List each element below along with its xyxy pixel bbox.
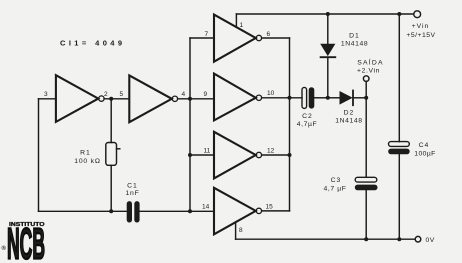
node: R1 bottom junction xyxy=(109,209,113,213)
inverter bubble A xyxy=(99,96,104,101)
svg-text:C2: C2 xyxy=(302,113,313,120)
node: bus junction pin 14 row xyxy=(188,209,192,213)
wire: top VDD rail xyxy=(236,13,413,15)
terminal: SAIDA output circle xyxy=(363,76,369,82)
svg-text:+2.Vin: +2.Vin xyxy=(357,67,380,74)
svg-text:12: 12 xyxy=(267,148,275,155)
svg-text:7: 7 xyxy=(205,31,209,38)
wire: pin 1 riser to VDD rail xyxy=(235,14,237,27)
svg-text:0V: 0V xyxy=(426,237,435,244)
wire: D2 cathode to output node xyxy=(353,97,366,99)
wire: C4 bottom lead xyxy=(398,154,400,239)
svg-text:4: 4 xyxy=(182,91,186,98)
op-amp U1B inverter pins 5/4 xyxy=(129,75,172,122)
svg-text:C3: C3 xyxy=(331,177,342,184)
svg-text:4,7 µF: 4,7 µF xyxy=(323,186,346,193)
svg-text:+5/+15V: +5/+15V xyxy=(406,32,435,39)
svg-text:9: 9 xyxy=(204,91,208,98)
svg-text:10: 10 xyxy=(267,90,275,97)
wire: C3 bottom lead xyxy=(365,190,367,239)
wire: C4 top lead from VDD rail xyxy=(398,14,400,142)
svg-text:NCB: NCB xyxy=(7,219,45,263)
svg-text:6: 6 xyxy=(267,31,271,38)
svg-text:11: 11 xyxy=(204,148,211,155)
op-amp U1A inverter pins 3/2 xyxy=(56,75,98,122)
svg-text:3: 3 xyxy=(44,91,48,98)
svg-text:1N4148: 1N4148 xyxy=(335,118,362,125)
capacitor C2 positive plate (solid) xyxy=(309,87,315,108)
inverter bubble D xyxy=(256,95,261,100)
node: D1 top rail junction xyxy=(326,12,330,16)
wire: C3 top lead xyxy=(365,98,367,178)
wire: SAIDA terminal riser xyxy=(365,81,367,97)
wire: pin 10 output to C2 xyxy=(262,97,302,99)
capacitor C2 negative plate (hollow) xyxy=(302,87,307,108)
svg-text:+Vin: +Vin xyxy=(412,23,430,30)
diode D1 xyxy=(321,44,336,57)
svg-text:14: 14 xyxy=(202,204,210,211)
node: C4 top rail junction xyxy=(397,12,401,16)
svg-text:1N4148: 1N4148 xyxy=(341,41,368,48)
node: bus junction pin 11 row xyxy=(188,153,192,157)
svg-text:1: 1 xyxy=(240,22,244,29)
node: bus junction pin 10 row xyxy=(288,96,292,100)
wire: R1 bottom lead xyxy=(110,165,112,211)
inverter bubble E xyxy=(256,152,261,157)
svg-text:15: 15 xyxy=(266,204,274,211)
svg-text:D2: D2 xyxy=(344,110,355,117)
wire: inverter A input lead (pin 3) xyxy=(39,98,56,100)
wire: bottom ground rail xyxy=(236,238,415,240)
wire: pin 6 output to bus xyxy=(262,37,290,39)
svg-text:100µF: 100µF xyxy=(414,150,435,157)
capacitor C4 negative plate (solid) xyxy=(388,149,410,155)
node: C2/D1/D2 junction xyxy=(326,96,330,100)
wire: bottom oscillator wire left of C1 xyxy=(39,210,127,212)
svg-text:D1: D1 xyxy=(349,33,360,40)
svg-text:C4: C4 xyxy=(419,142,430,149)
capacitor C3 negative plate (solid) xyxy=(355,185,378,191)
diode D2 xyxy=(340,91,353,106)
wire: left vertical feedback wire xyxy=(38,99,40,212)
capacitor C3 positive plate (hollow) xyxy=(355,177,377,182)
svg-text:®: ® xyxy=(2,245,7,252)
op-amp U1E inverter pins 11/12 xyxy=(214,132,256,179)
node 2 junction xyxy=(109,97,113,101)
wire: D2 anode lead xyxy=(328,97,340,99)
resistor R1 side tick xyxy=(117,148,120,150)
resistor R1 body xyxy=(106,143,117,166)
inverter bubble B xyxy=(172,96,177,101)
svg-text:4,7µF: 4,7µF xyxy=(297,121,318,128)
svg-text:5: 5 xyxy=(120,91,124,98)
wire: D1 anode lead from VDD rail xyxy=(327,14,329,44)
wire: node 4 to pin 9 xyxy=(178,98,214,100)
svg-text:8: 8 xyxy=(239,227,243,234)
wire: node 2 to pin 5 xyxy=(104,98,129,100)
wire: D1 cathode lead xyxy=(327,57,329,98)
wire: R1 top lead xyxy=(110,99,112,143)
svg-text:C1: C1 xyxy=(127,183,138,190)
svg-text:SAÍDA: SAÍDA xyxy=(357,58,383,67)
inverter bubble F xyxy=(256,208,261,213)
node: D2/C3 output junction xyxy=(364,96,368,100)
svg-text:100 kΩ: 100 kΩ xyxy=(74,158,101,165)
capacitor C1 plates xyxy=(127,201,140,222)
wire: pin 7 input lead xyxy=(190,37,214,39)
node: C4 ground junction xyxy=(397,237,401,241)
wire: pin 12 output lead xyxy=(262,154,290,156)
op-amp U1C inverter pins 7/6 xyxy=(214,15,256,62)
wire: pin 15 output lead xyxy=(262,210,290,212)
inverter bubble C xyxy=(256,35,261,40)
wire: C2 to D1/D2 node xyxy=(314,97,328,99)
wire: node 4 vertical input bus xyxy=(189,38,191,211)
svg-text:CI1= 4049: CI1= 4049 xyxy=(60,39,125,48)
op-amp U1F inverter pins 14/15 xyxy=(214,188,256,235)
wire: bottom oscillator wire right of C1 (pin 14 input) xyxy=(140,210,214,212)
node 4 junction xyxy=(188,97,192,101)
wire: pin 11 input lead xyxy=(190,154,214,156)
svg-text:R1: R1 xyxy=(80,150,91,157)
terminal: 0V circle xyxy=(415,236,421,242)
op-amp U1D inverter pins 9/10 xyxy=(214,74,256,121)
terminal: +Vin circle xyxy=(414,11,421,18)
node: bus junction pin 12 row xyxy=(288,153,292,157)
svg-text:1nF: 1nF xyxy=(125,190,139,197)
wire: pin 8 riser to ground rail xyxy=(235,222,237,239)
node: C3 ground junction xyxy=(364,237,368,241)
svg-text:2: 2 xyxy=(104,91,108,98)
capacitor C4 positive plate (hollow) xyxy=(389,142,410,147)
wire: output bus vertical xyxy=(289,38,291,211)
